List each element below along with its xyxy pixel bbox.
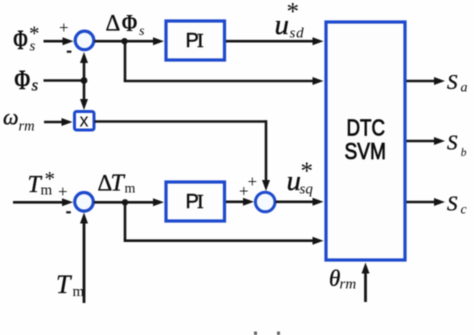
node ωrm label bbox=[3, 105, 35, 135]
svg-text:c: c bbox=[461, 203, 468, 218]
wire ωrm into multiplier bbox=[44, 118, 73, 126]
node ΔTm error label bbox=[98, 171, 136, 197]
svg-text:+: + bbox=[248, 172, 258, 191]
node u*sq label bbox=[287, 158, 314, 198]
svg-text:+: + bbox=[59, 18, 69, 37]
summing junction flux (circle) bbox=[75, 31, 94, 50]
PI flux controller box bbox=[166, 21, 225, 60]
svg-text:S: S bbox=[447, 70, 458, 94]
svg-text:sq: sq bbox=[300, 182, 314, 198]
svg-text:T: T bbox=[111, 171, 126, 197]
svg-text:SVM: SVM bbox=[345, 138, 387, 164]
node junction dot ΔΦs bbox=[121, 38, 127, 44]
summing junction uq (circle) bbox=[255, 192, 275, 212]
wire uq summing output u*sq to DTC SVM bbox=[276, 198, 324, 206]
svg-text:Φ: Φ bbox=[13, 26, 28, 57]
node junction dot Φs bbox=[81, 77, 88, 84]
wire PI flux output u*sd to DTC SVM bbox=[226, 37, 324, 45]
svg-text:I: I bbox=[197, 30, 204, 52]
svg-text:m: m bbox=[125, 182, 136, 197]
wire torque summing junction to PI torque controller bbox=[94, 198, 164, 206]
node Tm* torque reference label bbox=[28, 167, 56, 199]
svg-text:x: x bbox=[80, 111, 89, 131]
wire PI torque output into uq summing junction bbox=[226, 198, 254, 206]
wire multiplier output right then down to torque summing node bbox=[95, 120, 271, 191]
svg-text:+: + bbox=[58, 182, 68, 201]
wire θrm up into DTC SVM bottom bbox=[362, 263, 370, 303]
wire Tm feedback up into torque summing junction bbox=[80, 213, 88, 304]
svg-text:DTC: DTC bbox=[347, 114, 386, 140]
svg-text:b: b bbox=[461, 147, 467, 159]
partial caption marks at bottom edge bbox=[254, 332, 280, 335]
svg-text:rm: rm bbox=[340, 277, 357, 293]
node ΔΦs error label bbox=[106, 11, 146, 40]
svg-text:*: * bbox=[45, 167, 56, 191]
wire output Sb bbox=[407, 137, 446, 145]
node θrm label bbox=[329, 266, 356, 293]
svg-text:Φ: Φ bbox=[122, 11, 138, 37]
svg-text:Δ: Δ bbox=[106, 11, 121, 36]
node Φs* flux reference label bbox=[13, 22, 40, 57]
wire output Sa bbox=[407, 77, 446, 85]
wire Φs down into multiplier bbox=[80, 81, 88, 111]
node Sa label bbox=[447, 70, 468, 96]
DTC SVM block bbox=[326, 22, 405, 260]
svg-text:s: s bbox=[30, 39, 36, 55]
svg-text:s: s bbox=[32, 76, 39, 95]
node u*sd label bbox=[275, 0, 305, 42]
minus sign at flux summing junction bbox=[67, 51, 72, 53]
svg-text:S: S bbox=[447, 131, 458, 155]
svg-text:rm: rm bbox=[19, 119, 35, 135]
summing junction torque (circle) bbox=[75, 193, 94, 212]
node Sb label bbox=[447, 131, 467, 160]
svg-text:a: a bbox=[461, 81, 468, 96]
minus sign at torque summing junction bbox=[66, 211, 71, 213]
svg-text:T: T bbox=[56, 270, 72, 299]
node Tm feedback label bbox=[56, 270, 85, 300]
svg-text:S: S bbox=[447, 192, 458, 216]
svg-text:sd: sd bbox=[290, 26, 305, 42]
node junction dot ΔTm bbox=[122, 199, 128, 205]
wire torque branch down and right to DTC SVM bbox=[124, 202, 324, 244]
wire Tm* input to torque summing junction bbox=[13, 198, 73, 206]
wire output Sc bbox=[407, 198, 446, 206]
PI torque controller box bbox=[166, 182, 225, 221]
svg-text:ω: ω bbox=[3, 105, 19, 130]
wire flux branch down and right to DTC SVM bbox=[124, 41, 324, 85]
wire Φs up into flux summing junction bbox=[80, 52, 88, 81]
svg-text:I: I bbox=[197, 191, 204, 213]
svg-text:s: s bbox=[139, 24, 145, 39]
node Sc label bbox=[447, 192, 468, 218]
svg-text:Φ: Φ bbox=[14, 66, 31, 97]
wire Φs* input to flux summing junction bbox=[44, 37, 74, 45]
multiplier X block bbox=[75, 111, 95, 131]
wire flux summing junction to PI flux controller bbox=[95, 37, 165, 45]
wire Φs feedback horizontal bbox=[44, 79, 85, 82]
svg-text:*: * bbox=[287, 0, 300, 26]
node Φs feedback label bbox=[14, 66, 39, 97]
